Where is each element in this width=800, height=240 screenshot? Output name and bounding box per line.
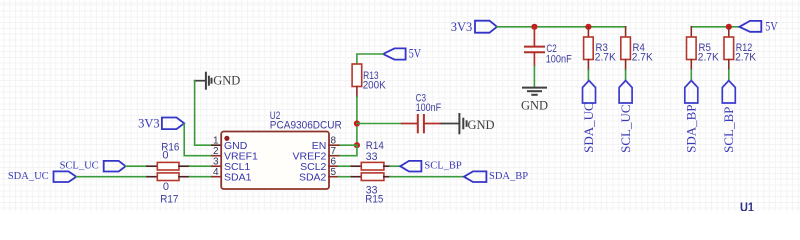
op IC U2 PCA9306DCUR body bbox=[221, 132, 329, 190]
ground GND right of C3 bbox=[442, 114, 495, 133]
svg-text:5V: 5V bbox=[765, 19, 777, 33]
ground GND top left bbox=[195, 73, 241, 89]
resistor R13 200K bbox=[352, 64, 386, 97]
resistor R12 2.7K bbox=[724, 27, 757, 70]
svg-text:U1: U1 bbox=[740, 201, 754, 212]
svg-text:PCA9306DCUR: PCA9306DCUR bbox=[270, 120, 342, 132]
pin1 marker dot bbox=[224, 136, 229, 141]
port SDA_BP bbox=[464, 171, 528, 182]
power port 3V3 left bbox=[138, 117, 184, 131]
wire EN to junction bbox=[339, 144, 357, 146]
power port 3V3 top bbox=[451, 20, 497, 34]
wire R13 down to EN node bbox=[356, 97, 358, 145]
svg-text:33: 33 bbox=[366, 151, 378, 163]
junction C3 branch bbox=[354, 120, 360, 126]
wire junction down to VREF2 bbox=[339, 145, 357, 156]
svg-text:2: 2 bbox=[213, 146, 219, 157]
wire SCL_UC to R16 bbox=[126, 165, 147, 167]
svg-text:SCL_BP: SCL_BP bbox=[424, 161, 462, 172]
pin4 stub bbox=[212, 176, 221, 178]
pin2 stub bbox=[212, 155, 221, 157]
pin8 stub bbox=[329, 144, 339, 146]
svg-text:SDA1: SDA1 bbox=[224, 172, 252, 184]
wire to C3 bbox=[357, 123, 402, 125]
svg-text:SDA2: SDA2 bbox=[299, 172, 327, 184]
wire 3V3 rail bbox=[497, 26, 626, 28]
svg-text:3V3: 3V3 bbox=[138, 117, 160, 131]
pin7 stub bbox=[329, 155, 339, 157]
net flag SDA_UC (below R3) bbox=[581, 81, 596, 153]
ground GND under C2 bbox=[521, 88, 548, 113]
svg-text:100nF: 100nF bbox=[546, 54, 572, 66]
power port 5V middle bbox=[383, 46, 421, 60]
svg-text:2.7K: 2.7K bbox=[735, 51, 757, 63]
capacitor C3 100nF bbox=[402, 92, 442, 132]
svg-text:R15: R15 bbox=[365, 193, 383, 205]
svg-text:200K: 200K bbox=[363, 79, 387, 91]
svg-text:2.7K: 2.7K bbox=[698, 51, 720, 63]
svg-text:0: 0 bbox=[162, 150, 168, 162]
svg-text:GND: GND bbox=[468, 118, 495, 132]
svg-text:SCL_UC: SCL_UC bbox=[60, 161, 99, 172]
resistor R14 33 bbox=[352, 140, 391, 170]
svg-text:SCL_UC: SCL_UC bbox=[618, 104, 633, 152]
resistor R17 0 bbox=[147, 173, 190, 206]
wire R12 to flag bbox=[728, 70, 730, 81]
wire 5V to R13 bbox=[357, 54, 383, 64]
wire R16 to pin3 bbox=[190, 165, 212, 167]
resistor R3 2.7K bbox=[584, 27, 617, 70]
pin5 stub bbox=[329, 176, 339, 178]
net flag SCL_UC (below R4) bbox=[618, 81, 633, 153]
pin6 stub bbox=[329, 165, 339, 167]
power port 5V right bbox=[739, 19, 777, 33]
wire C2 to ground bbox=[533, 66, 535, 87]
net flag SDA_BP (below R5) bbox=[684, 81, 699, 153]
svg-text:GND: GND bbox=[213, 74, 240, 88]
svg-text:SDA_UC: SDA_UC bbox=[581, 102, 596, 153]
pin1 stub bbox=[212, 144, 221, 146]
wire R3 to flag bbox=[587, 70, 589, 81]
svg-text:100nF: 100nF bbox=[416, 102, 442, 114]
wire R14 to SCL_BP bbox=[390, 165, 400, 167]
capacitor C2 bbox=[525, 27, 572, 66]
svg-text:SDA_UC: SDA_UC bbox=[8, 171, 49, 182]
svg-text:1: 1 bbox=[213, 136, 219, 147]
pin3 stub bbox=[212, 165, 221, 167]
svg-text:0: 0 bbox=[163, 181, 169, 193]
port SCL_UC bbox=[60, 161, 126, 172]
wire pin6 to R14 bbox=[339, 165, 352, 167]
svg-text:3: 3 bbox=[213, 157, 219, 168]
wire pin5 to R15 bbox=[339, 176, 352, 178]
wire SDA_UC to R17 bbox=[76, 176, 147, 178]
resistor R5 2.7K bbox=[687, 27, 720, 70]
wire R15 to SDA_BP bbox=[390, 176, 464, 178]
wire R17 to pin4 bbox=[190, 176, 212, 178]
svg-text:SDA_BP: SDA_BP bbox=[489, 171, 528, 182]
wire 5V rail right bbox=[691, 26, 739, 28]
svg-text:GND: GND bbox=[521, 99, 548, 113]
svg-text:SCL_BP: SCL_BP bbox=[721, 107, 736, 153]
port SCL_BP bbox=[400, 161, 462, 172]
svg-text:5V: 5V bbox=[409, 46, 421, 60]
resistor R15 33 bbox=[352, 173, 391, 206]
svg-text:2.7K: 2.7K bbox=[632, 51, 654, 63]
wire R4 to flag bbox=[625, 70, 627, 81]
port SDA_UC bbox=[8, 171, 76, 182]
junction at C2 bbox=[531, 24, 537, 30]
net flag SCL_BP (below R12) bbox=[721, 81, 736, 153]
wire R5 to flag bbox=[690, 70, 692, 81]
svg-text:R17: R17 bbox=[160, 193, 178, 205]
svg-text:2.7K: 2.7K bbox=[595, 51, 617, 63]
svg-text:4: 4 bbox=[213, 167, 219, 178]
junction EN node bbox=[354, 142, 360, 148]
resistor R4 2.7K bbox=[621, 27, 654, 70]
resistor R16 0 bbox=[147, 142, 190, 171]
junction at R3 bbox=[585, 24, 591, 30]
junction at R12 bbox=[726, 24, 732, 30]
svg-text:3V3: 3V3 bbox=[451, 20, 473, 34]
svg-text:SDA_BP: SDA_BP bbox=[684, 104, 699, 152]
wire GND down to pin1 bbox=[195, 81, 212, 146]
wire 3V3 down to pin2 bbox=[184, 124, 212, 156]
